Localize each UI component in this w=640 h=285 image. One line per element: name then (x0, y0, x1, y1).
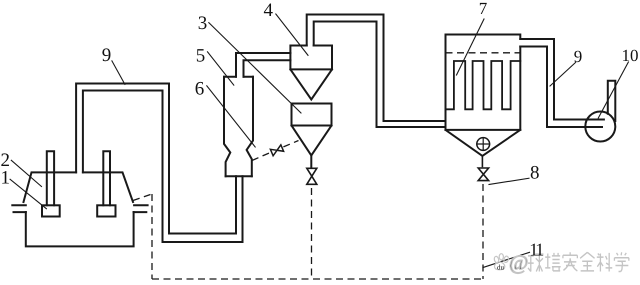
svg-text:du: du (497, 264, 505, 272)
svg-text:3: 3 (198, 13, 208, 34)
svg-text:1: 1 (535, 239, 544, 259)
svg-text:2: 2 (1, 150, 11, 171)
svg-text:@: @ (509, 251, 528, 275)
svg-text:6: 6 (195, 79, 205, 100)
svg-text:8: 8 (530, 163, 540, 184)
svg-text:5: 5 (196, 45, 206, 66)
svg-text:7: 7 (479, 0, 488, 18)
svg-text:4: 4 (264, 0, 274, 21)
svg-text:9: 9 (102, 45, 112, 66)
svg-text:10: 10 (622, 46, 639, 65)
svg-text:9: 9 (574, 47, 583, 66)
